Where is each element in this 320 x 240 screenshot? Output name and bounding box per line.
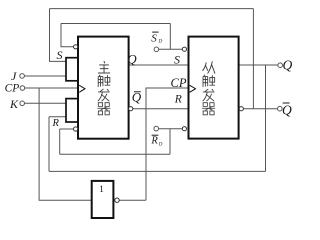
svg-text:R: R bbox=[150, 136, 158, 147]
svg-text:S: S bbox=[174, 53, 180, 67]
svg-text:Q: Q bbox=[127, 51, 137, 66]
svg-text:CP: CP bbox=[171, 76, 187, 90]
svg-text:K: K bbox=[9, 97, 19, 111]
svg-text:S: S bbox=[57, 48, 63, 62]
svg-text:D: D bbox=[158, 40, 163, 45]
svg-text:Q: Q bbox=[282, 102, 292, 117]
svg-text:J: J bbox=[11, 69, 17, 83]
svg-text:S: S bbox=[151, 32, 157, 44]
svg-text:Q: Q bbox=[283, 57, 293, 72]
svg-text:R: R bbox=[52, 118, 60, 129]
svg-text:R: R bbox=[174, 93, 182, 105]
svg-text:D: D bbox=[158, 142, 163, 147]
svg-text:1: 1 bbox=[99, 185, 104, 195]
svg-text:CP: CP bbox=[5, 83, 20, 95]
